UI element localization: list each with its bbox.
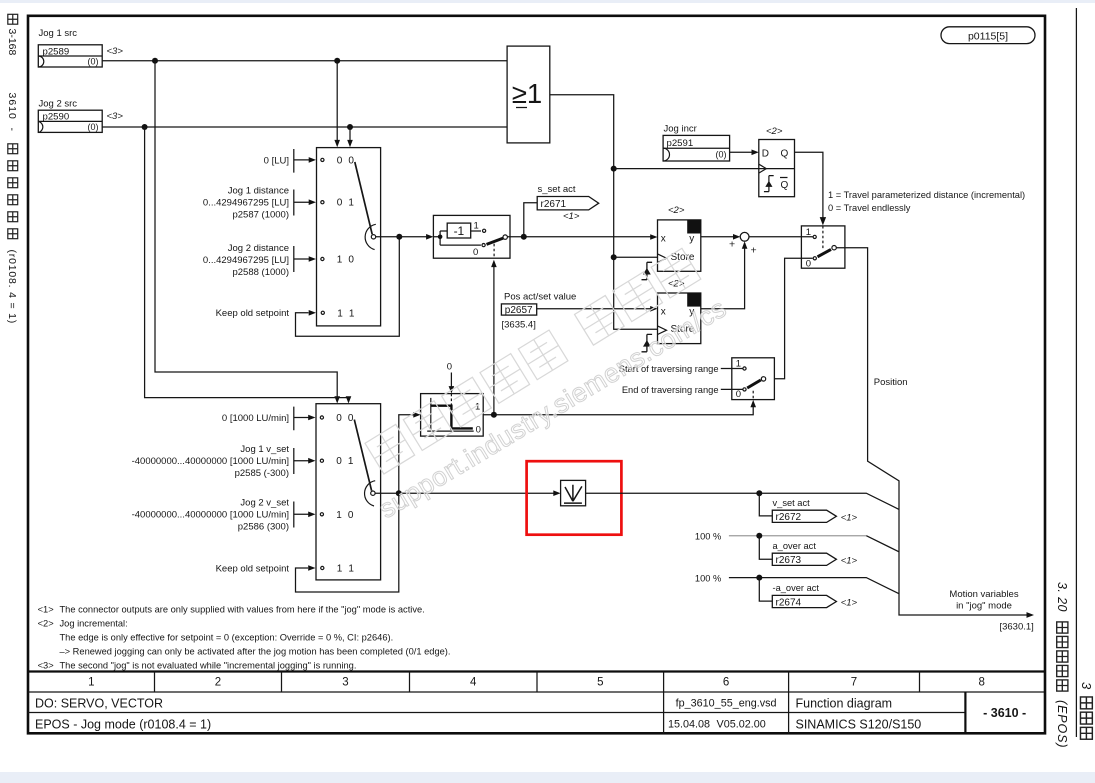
connector input p2591 (Jog incr) bbox=[663, 123, 730, 161]
mux1 input row jog1 distance p2587 bbox=[203, 185, 316, 220]
svg-text:Jog 1 src: Jog 1 src bbox=[39, 28, 78, 39]
svg-text:0 0: 0 0 bbox=[336, 413, 355, 424]
svg-text:1: 1 bbox=[88, 677, 94, 689]
node invert block input split bbox=[438, 235, 443, 240]
node jog1-B (drop to upper mux select) bbox=[334, 58, 340, 64]
invert switch output contact bbox=[503, 235, 507, 239]
svg-text:5: 5 bbox=[597, 677, 603, 689]
svg-text:in "jog" mode: in "jog" mode bbox=[956, 600, 1012, 611]
svg-text:3: 3 bbox=[342, 677, 348, 689]
mux1 contact 00 bbox=[321, 158, 324, 161]
footer row line 2 bbox=[28, 712, 965, 714]
svg-text:[3630.1]: [3630.1] bbox=[999, 621, 1033, 632]
mux2 output pivot arc bbox=[365, 481, 376, 506]
adder circle bbox=[740, 232, 749, 241]
connector output r2673 (a_over act) bbox=[772, 541, 857, 567]
wire mux1 output to invert block bbox=[376, 236, 429, 238]
svg-text:Position: Position bbox=[874, 377, 908, 388]
svg-text:The second "jog" is not evalua: The second "jog" is not evaluated while … bbox=[60, 660, 357, 670]
svg-text:Keep old setpoint: Keep old setpoint bbox=[216, 563, 290, 574]
wire p2657 to store2 x bbox=[537, 308, 653, 310]
svg-text:[3635.4]: [3635.4] bbox=[502, 320, 536, 331]
right sidebar caption: 3 gong neng tu italic bbox=[1079, 682, 1094, 739]
mux1 output contact bbox=[371, 235, 375, 239]
connector output r2672 (v_set act) bbox=[772, 498, 857, 524]
node binary signal branch bbox=[491, 412, 497, 418]
svg-text:+: + bbox=[729, 239, 735, 251]
wire store1 y to adder bbox=[701, 236, 735, 238]
svg-text:0 [1000 LU/min]: 0 [1000 LU/min] bbox=[222, 413, 289, 424]
footer column numbers bbox=[88, 677, 985, 689]
wire store2 y output up to adder bbox=[701, 243, 745, 309]
node branch to r2671 bbox=[521, 234, 527, 240]
svg-text:-40000000...40000000 [1000 LU/: -40000000...40000000 [1000 LU/min] bbox=[132, 456, 289, 467]
node jog2-B (drop to upper mux select) bbox=[347, 124, 353, 130]
wire -a_over line bbox=[729, 578, 899, 594]
svg-text:1 1: 1 1 bbox=[337, 308, 356, 319]
mux2 contact 11 bbox=[321, 566, 324, 569]
wire branch up to r2671 bbox=[524, 203, 537, 237]
svg-text:The edge is only effective for: The edge is only effective for setpoint … bbox=[60, 633, 394, 643]
node jog1-A (drop to lower mux select) bbox=[152, 58, 158, 64]
mux2 input row 0 [1000 LU/min] bbox=[222, 407, 316, 431]
svg-text:1 0: 1 0 bbox=[336, 510, 355, 521]
svg-text:p2585 (-300): p2585 (-300) bbox=[235, 468, 289, 479]
flip-flop edge annotation bbox=[764, 176, 774, 192]
svg-text:<3>: <3> bbox=[107, 111, 124, 122]
wire branch to r2672 bbox=[759, 493, 772, 516]
red highlight box bbox=[527, 461, 622, 535]
node jog2-A (drop to lower mux select) bbox=[142, 124, 148, 130]
svg-text:3610: 3610 bbox=[6, 93, 18, 120]
svg-text:0 1: 0 1 bbox=[336, 456, 355, 467]
mux1 feedback wire (output to 11 input) bbox=[296, 237, 400, 336]
svg-text:DO: SERVO, VECTOR: DO: SERVO, VECTOR bbox=[35, 696, 163, 710]
connector output r2674 (-a_over act) bbox=[772, 583, 857, 609]
svg-text:-a_over act: -a_over act bbox=[773, 583, 820, 593]
wire invert block output to store1 x bbox=[507, 236, 652, 238]
svg-text:Jog 2 v_set: Jog 2 v_set bbox=[240, 498, 289, 509]
svg-text:0...4294967295 [LU]: 0...4294967295 [LU] bbox=[203, 197, 289, 208]
svg-text:p2586 (300): p2586 (300) bbox=[238, 522, 289, 533]
svg-text:p2591: p2591 bbox=[667, 138, 694, 149]
svg-text:0...4294967295 [LU]: 0...4294967295 [LU] bbox=[203, 255, 289, 266]
invert switch contact 1 bbox=[483, 229, 486, 232]
svg-text:1: 1 bbox=[474, 221, 479, 232]
svg-text:(EPOS): (EPOS) bbox=[1055, 700, 1069, 748]
svg-text:p2590: p2590 bbox=[43, 112, 70, 123]
svg-text:r2671: r2671 bbox=[541, 199, 567, 210]
wire jog1 source to OR gate bbox=[102, 60, 507, 62]
wire invert switch control from binary signal bbox=[493, 266, 495, 415]
svg-text:<3>: <3> bbox=[107, 46, 124, 57]
mux2 contact 00 bbox=[320, 416, 323, 419]
svg-text:0 = Travel endlessly: 0 = Travel endlessly bbox=[828, 203, 911, 213]
invert block internal wiring bbox=[433, 231, 481, 245]
svg-text:<1>: <1> bbox=[841, 555, 858, 566]
svg-text:The connector outputs are only: The connector outputs are only supplied … bbox=[60, 605, 425, 615]
wire branch to r2673 bbox=[759, 536, 772, 560]
svg-text:3-168: 3-168 bbox=[6, 29, 18, 56]
svg-text:SINAMICS S120/S150: SINAMICS S120/S150 bbox=[796, 717, 922, 731]
store2 block bbox=[658, 279, 701, 344]
wire jog1 select drop to mux2 bbox=[155, 61, 337, 398]
wire jerk limiter output (v_set act line) bbox=[586, 493, 899, 509]
node a_over branch bbox=[756, 533, 762, 539]
svg-text:Pos act/set value: Pos act/set value bbox=[504, 292, 576, 303]
svg-text:x: x bbox=[661, 234, 666, 245]
wire mux2 output to jerk limiter bbox=[375, 492, 555, 494]
watermark line 1: Xi Men Zi Gong Ye / Zhao Da An (outlined CJK) bbox=[365, 248, 701, 474]
svg-text:Jog 2 src: Jog 2 src bbox=[39, 99, 78, 110]
svg-text:Q: Q bbox=[781, 148, 789, 159]
wire adder to incremental switch contact 1 bbox=[749, 236, 813, 238]
bottom window strip bbox=[0, 772, 1095, 783]
svg-text:0 0: 0 0 bbox=[337, 155, 356, 166]
invert switch control dashed bbox=[493, 244, 495, 258]
wire p2591 to flip-flop D bbox=[730, 151, 755, 153]
svg-text:8: 8 bbox=[978, 677, 984, 689]
svg-text:r2673: r2673 bbox=[776, 555, 802, 566]
svg-text:1 = Travel parameterized dista: 1 = Travel parameterized distance (incre… bbox=[828, 190, 1025, 200]
mux2 input row jog1 v_set p2585 bbox=[132, 444, 316, 479]
wire OR gate output bus (down to store clocks) bbox=[550, 95, 658, 329]
svg-text:- 3610 -: - 3610 - bbox=[983, 706, 1026, 720]
wire to flip-flop clock bbox=[614, 168, 759, 170]
svg-text:x: x bbox=[661, 307, 666, 318]
mux2 velocity selector box bbox=[316, 404, 381, 580]
node mux2 output junction bbox=[396, 490, 402, 496]
wire incremental switch output / position line to motion arrow bbox=[837, 248, 1029, 615]
footer column dividers (number row) bbox=[155, 672, 920, 693]
svg-text:<1>: <1> bbox=[841, 512, 858, 523]
svg-text:0 [LU]: 0 [LU] bbox=[264, 155, 289, 166]
svg-text:≥1: ≥1 bbox=[512, 78, 542, 109]
mux2 input row jog2 v_set p2586 bbox=[132, 498, 316, 533]
invert switch lever bbox=[487, 238, 504, 244]
svg-text:-40000000...40000000 [1000 LU/: -40000000...40000000 [1000 LU/min] bbox=[132, 510, 289, 521]
svg-text:Jog 1 v_set: Jog 1 v_set bbox=[240, 444, 289, 455]
svg-text:s_set act: s_set act bbox=[538, 184, 576, 195]
wire jog2 select drop to mux2 bbox=[145, 127, 349, 398]
svg-text:Keep old setpoint: Keep old setpoint bbox=[216, 308, 290, 319]
wire to store1 clock bbox=[614, 256, 658, 258]
wire a_over diagonal bbox=[866, 536, 899, 552]
svg-text:<1>: <1> bbox=[38, 605, 54, 615]
traversing range switch bbox=[732, 358, 775, 400]
wire branch to r2674 bbox=[759, 578, 772, 602]
wire jog1 select drop to mux1 bbox=[336, 61, 338, 142]
mux2 row labels bbox=[336, 413, 355, 575]
svg-text:1 0: 1 0 bbox=[337, 255, 356, 266]
footer table top line bbox=[28, 670, 1044, 672]
mux1 row labels bbox=[337, 155, 356, 319]
node OR-out to flipflop clock bbox=[611, 166, 617, 172]
node mux1 output junction bbox=[396, 234, 402, 240]
mux1 position setpoint selector box bbox=[317, 148, 381, 326]
svg-text:p2657: p2657 bbox=[505, 305, 533, 316]
gain -1 box bbox=[447, 223, 471, 238]
svg-text:V05.02.00: V05.02.00 bbox=[717, 719, 766, 731]
mux2 lever bbox=[354, 420, 371, 491]
connector input p2590 (Jog 2 src) bbox=[38, 99, 123, 133]
footer row line 1 bbox=[28, 691, 1044, 693]
svg-text:r2674: r2674 bbox=[776, 597, 802, 608]
wire step block output binary travel signal bbox=[483, 405, 753, 415]
svg-text:+: + bbox=[751, 245, 757, 257]
wire traversing-range switch output to incremental switch contact 0 bbox=[774, 258, 812, 378]
svg-text:1 1: 1 1 bbox=[337, 564, 356, 575]
mux2 feedback wire bbox=[296, 493, 399, 592]
svg-text:100 %: 100 % bbox=[695, 531, 721, 541]
svg-text:–> Renewed jogging can only be: –> Renewed jogging can only be activated… bbox=[60, 647, 451, 657]
svg-text:-: - bbox=[6, 128, 18, 132]
svg-text:p2588 (1000): p2588 (1000) bbox=[232, 267, 289, 278]
svg-text:0: 0 bbox=[806, 258, 811, 269]
jerk limiter block bbox=[561, 480, 586, 505]
svg-text:(0): (0) bbox=[716, 150, 727, 160]
top window strip bbox=[0, 0, 1095, 3]
svg-text:<1>: <1> bbox=[841, 598, 858, 609]
mux1 output pivot arc bbox=[365, 224, 376, 249]
svg-text:EPOS - Jog mode (r0108.4 = 1): EPOS - Jog mode (r0108.4 = 1) bbox=[35, 717, 211, 731]
svg-text:End of traversing range: End of traversing range bbox=[622, 385, 719, 395]
svg-text:Jog 1 distance: Jog 1 distance bbox=[228, 185, 289, 196]
parameter p2657 (Pos act/set value) bbox=[501, 292, 576, 331]
svg-text:2: 2 bbox=[215, 677, 221, 689]
wire a_over line (gray) bbox=[729, 535, 866, 537]
svg-text:3. 20: 3. 20 bbox=[1055, 582, 1069, 612]
store1 block bbox=[658, 205, 701, 271]
svg-text:fp_3610_55_eng.vsd: fp_3610_55_eng.vsd bbox=[676, 698, 777, 710]
svg-text:0 1: 0 1 bbox=[337, 198, 356, 209]
svg-text:1: 1 bbox=[806, 227, 811, 238]
svg-text:v_set act: v_set act bbox=[773, 498, 811, 508]
svg-text:y: y bbox=[689, 234, 694, 245]
wire jog2 source to OR gate bbox=[102, 126, 507, 128]
svg-text:0: 0 bbox=[736, 389, 741, 400]
mux2 contact 01 bbox=[320, 459, 323, 462]
svg-text:Q: Q bbox=[781, 180, 789, 191]
wire -1 box to contact 1 bbox=[471, 230, 481, 232]
footer cell dividers (text rows) bbox=[664, 692, 789, 734]
svg-text:p2587 (1000): p2587 (1000) bbox=[232, 209, 289, 220]
node v_set branch bbox=[756, 490, 762, 496]
connector input p2589 (Jog 1 src) bbox=[38, 28, 123, 67]
D flip-flop bbox=[759, 126, 795, 197]
invert switch contact 0 bbox=[482, 244, 485, 247]
svg-text:Motion variables: Motion variables bbox=[949, 589, 1018, 600]
svg-text:<2>: <2> bbox=[766, 126, 783, 137]
mux2 output contact bbox=[371, 491, 375, 495]
svg-text:0: 0 bbox=[473, 247, 478, 258]
svg-text:Jog incremental:: Jog incremental: bbox=[60, 619, 128, 629]
wire flip-flop Q to incremental switch bbox=[795, 152, 823, 219]
wire velocity tap to step block input bbox=[399, 415, 416, 493]
footer -3610- cell border bbox=[964, 692, 966, 734]
svg-text:(0): (0) bbox=[88, 122, 99, 132]
svg-text:1: 1 bbox=[736, 358, 741, 369]
node OR-out to store1 clock bbox=[611, 254, 617, 260]
mux1 contact 10 bbox=[321, 257, 324, 260]
svg-text:p2589: p2589 bbox=[43, 46, 70, 57]
svg-text:<2>: <2> bbox=[668, 205, 685, 216]
wire jog2 select drop to mux1 bbox=[349, 127, 351, 142]
svg-text:p0115[5]: p0115[5] bbox=[968, 31, 1008, 43]
svg-text:4: 4 bbox=[470, 677, 477, 689]
mux1 input row jog2 distance p2588 bbox=[203, 243, 316, 278]
node -a_over branch bbox=[756, 575, 762, 581]
invert selector block (-1 switch) outer box bbox=[433, 215, 510, 258]
mux1 contact 01 bbox=[321, 201, 324, 204]
watermark line 2: support.industry.siemens.com/cs (outlined) bbox=[374, 293, 732, 524]
svg-text:6: 6 bbox=[723, 677, 729, 689]
left sidebar caption: tu 3-168 3610 - dian dong yun xing fang shi (r0108.4 = 1) bbox=[6, 14, 18, 324]
mux1 input row 0[LU]: bar, arrow, label bbox=[264, 149, 316, 173]
store2 edge annotation bbox=[642, 334, 653, 351]
store1 edge annotation bbox=[642, 262, 653, 279]
svg-text:3: 3 bbox=[1079, 682, 1094, 690]
svg-text:(r0108. 4 = 1): (r0108. 4 = 1) bbox=[6, 250, 18, 325]
mux1 lever bbox=[355, 162, 372, 234]
svg-text:a_over act: a_over act bbox=[773, 541, 817, 551]
svg-text:D: D bbox=[762, 148, 769, 159]
svg-text:Function diagram: Function diagram bbox=[796, 696, 893, 710]
svg-text:<1>: <1> bbox=[563, 211, 580, 222]
svg-text:100 %: 100 % bbox=[695, 573, 721, 583]
svg-text:Jog incr: Jog incr bbox=[664, 123, 697, 134]
mux2 contact 10 bbox=[320, 513, 323, 516]
svg-text:<2>: <2> bbox=[38, 619, 54, 629]
mux1 contact 11 bbox=[321, 311, 324, 314]
svg-text:15.04.08: 15.04.08 bbox=[668, 719, 710, 731]
svg-text:0: 0 bbox=[447, 362, 452, 373]
svg-text:r2672: r2672 bbox=[776, 512, 802, 523]
svg-text:Jog 2 distance: Jog 2 distance bbox=[228, 243, 289, 254]
step function block (setpoint=0 detector) bbox=[421, 394, 484, 437]
right sidebar caption: 3.20 ji ben ding wei qi (EPOS) italic bbox=[1055, 582, 1069, 748]
svg-text:-1: -1 bbox=[454, 224, 465, 238]
right sidebar separator line bbox=[1075, 8, 1077, 737]
svg-text:<3>: <3> bbox=[38, 660, 54, 670]
svg-text:(0): (0) bbox=[88, 57, 99, 67]
OR gate bbox=[507, 46, 550, 143]
connector output r2671 (s_set act) bbox=[537, 184, 599, 222]
reference bubble p0115[5] bbox=[941, 27, 1035, 44]
svg-text:7: 7 bbox=[851, 677, 857, 689]
incremental/endless selector switch bbox=[801, 226, 845, 269]
